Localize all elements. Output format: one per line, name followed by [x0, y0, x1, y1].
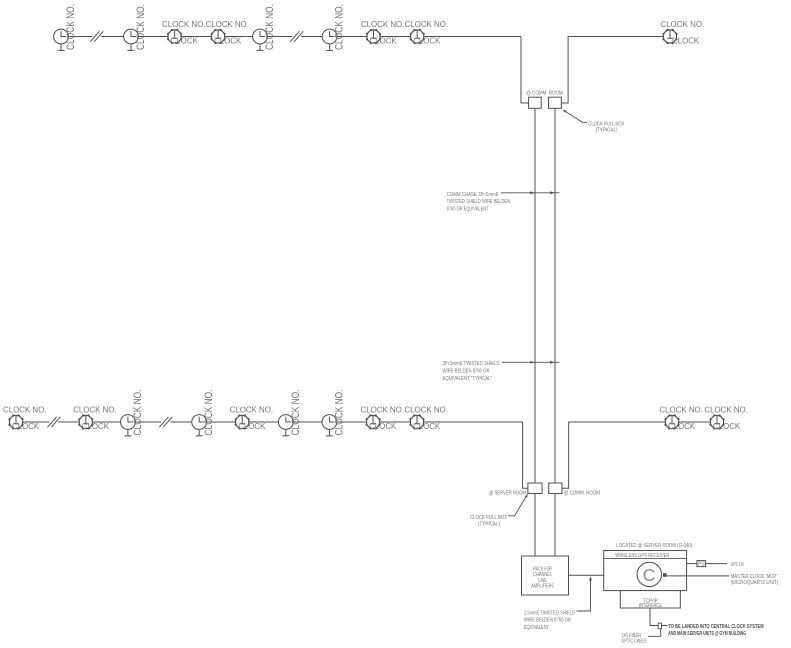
wire: master clock MCP lead [667, 575, 730, 577]
label: CLOCK NO. / CLOCK for top right end clock [660, 19, 704, 45]
svg-text:CLOCK NO.: CLOCK NO. [659, 405, 703, 415]
svg-text:WIRE BELDEN 8760 OR: WIRE BELDEN 8760 OR [443, 369, 490, 375]
svg-text:(MICROQUARTZ UNIT): (MICROQUARTZ UNIT) [731, 580, 779, 586]
svg-text:CLOCK NO.: CLOCK NO. [162, 19, 206, 29]
wire break (top row right) [290, 31, 303, 41]
svg-text:CLOCK NO.: CLOCK NO. [361, 19, 405, 29]
master clock C symbol [637, 562, 661, 586]
svg-text:CLOCK NO.: CLOCK NO. [333, 390, 345, 436]
bottom right clock 2 (surface clock) [710, 415, 724, 429]
wire: bottom row segment 2 [59, 421, 162, 423]
arrowhead to server room pull box [525, 493, 529, 498]
power supply PS box [697, 561, 706, 567]
svg-text:CLOCK NO.: CLOCK NO. [65, 4, 77, 50]
svg-text:COMM CHASE 3Pr.5mmE: COMM CHASE 3Pr.5mmE [447, 192, 499, 198]
svg-text:WIRELESS GPS RECEIVER: WIRELESS GPS RECEIVER [615, 553, 669, 559]
wire: comm room pull box riser to top right clock [561, 37, 670, 104]
label: CLOCK NO. / CLOCK for bottom surface clock 4 [361, 405, 405, 431]
svg-text:TWISTED SHIELD WIRE BELDEN: TWISTED SHIELD WIRE BELDEN [447, 199, 511, 205]
top row surface clock 4 (surface clock) [410, 29, 424, 43]
clock pull box (comm room top, right) [549, 97, 562, 108]
clock pull box (server room) [528, 483, 542, 494]
top row surface clock 2 (surface clock) [211, 29, 225, 43]
label: CLOCK NO. / CLOCK for bottom surface clock 3 [230, 405, 274, 431]
label: CLOCK NO. / CLOCK for bottom surface clock 2 [73, 405, 117, 431]
arrowhead to comm room pull box [562, 109, 567, 113]
svg-text:CLOCK NO.: CLOCK NO. [230, 405, 274, 415]
svg-text:@ COMM. ROOM: @ COMM. ROOM [564, 490, 600, 496]
svg-text:TO BE LANDED INTO CENTRAL CLOC: TO BE LANDED INTO CENTRAL CLOCK SYSTEM [668, 624, 764, 630]
svg-text:CLOCK NO.: CLOCK NO. [404, 405, 448, 415]
wire: comm room pull box to bottom right clocks [562, 422, 717, 488]
top row pedestal clock 3 (wall clock on pedestal) [253, 29, 268, 50]
top row pedestal clock 4 (wall clock on pedestal) [322, 29, 337, 50]
top row surface clock 3 (surface clock) [366, 29, 380, 43]
tcp/ip interface box [620, 591, 680, 608]
svg-text:CLOCK: CLOCK [668, 421, 695, 431]
label: CLOCK NO. / CLOCK for bottom surface clock 5 [404, 405, 448, 431]
svg-text:CLOCK: CLOCK [171, 36, 198, 46]
svg-text:CLOCK NO.: CLOCK NO. [660, 19, 704, 29]
svg-text:2.5mmE TWISTED SHIELD: 2.5mmE TWISTED SHIELD [524, 611, 575, 617]
clock pull box (comm room top, left) [529, 97, 542, 108]
svg-text:CLOCK: CLOCK [214, 36, 241, 46]
svg-text:CLOCK NO.: CLOCK NO. [290, 390, 302, 436]
clock pull box (comm room bottom) [549, 483, 562, 494]
svg-text:8760 OR EQUIVALENT: 8760 OR EQUIVALENT [447, 207, 489, 213]
top right end clock (surface clock) [663, 29, 677, 43]
bottom row surface clock 4 (surface clock) [366, 415, 380, 429]
leader: fiber optic cable [648, 629, 661, 637]
svg-text:CLOCK NO.: CLOCK NO. [206, 19, 250, 29]
svg-text:EQUIVALENT: EQUIVALENT [524, 625, 549, 631]
label: CLOCK NO. / CLOCK for bottom surface clock 1 [3, 405, 47, 431]
svg-text:CLOCK NO.: CLOCK NO. [264, 4, 276, 50]
svg-text:C: C [643, 565, 656, 585]
wire break (bottom row left) [48, 417, 61, 427]
divider: gps receiver header [604, 557, 687, 559]
svg-text:OPTIC CABLE: OPTIC CABLE [621, 638, 647, 644]
wire: left riser 3Pr twisted shield [534, 108, 536, 556]
bottom row surface clock 3 (surface clock) [235, 415, 249, 429]
svg-text:CLOCK: CLOCK [82, 421, 109, 431]
leader: riser cable note 1 [501, 192, 560, 194]
svg-text:(TYPICAL): (TYPICAL) [596, 128, 618, 134]
svg-text:CLOCK: CLOCK [713, 421, 740, 431]
top row pedestal clock 1 (wall clock on pedestal) [54, 29, 69, 50]
bottom row pedestal clock 4 (wall clock on pedestal) [322, 415, 337, 436]
arrowhead 2.5mm note to wire [589, 576, 592, 580]
arrowhead note1 right riser [550, 191, 554, 194]
wire: rack to wireless gps receiver [569, 574, 604, 576]
wire: bottom row drop to server room pull box [523, 422, 528, 488]
svg-text:CLOCK: CLOCK [413, 36, 440, 46]
svg-text:EQUIVALENT “TYPICAL”: EQUIVALENT “TYPICAL” [443, 376, 493, 382]
text: tcp/ip interface label [639, 598, 662, 609]
svg-text:LOCATED @ SERVER ROOM (G-040): LOCATED @ SERVER ROOM (G-040) [616, 543, 692, 549]
bottom right clock 1 (surface clock) [665, 415, 679, 429]
svg-text:@ SERVER ROOM: @ SERVER ROOM [489, 490, 526, 496]
svg-text:CLOCK PULL BOX: CLOCK PULL BOX [588, 121, 624, 127]
svg-text:(TYPICAL): (TYPICAL) [478, 521, 500, 527]
bottom row surface clock 2 (surface clock) [79, 415, 93, 429]
wire: top row drop to comm room pull box [521, 37, 529, 104]
svg-text:CLOCK NO.: CLOCK NO. [132, 390, 144, 436]
svg-text:CLOCK NO.: CLOCK NO. [405, 19, 449, 29]
bottom row surface clock 1 (surface clock) [9, 415, 23, 429]
label: CLOCK NO. / CLOCK for top surface clock 4 [405, 19, 449, 45]
rack for channel line amplifiers [522, 556, 569, 595]
wire: bottom row segment 1 [16, 421, 50, 423]
svg-text:@ COMM. ROOM: @ COMM. ROOM [526, 90, 563, 96]
svg-text:CLOCK: CLOCK [672, 36, 699, 46]
label: CLOCK NO. / CLOCK for bottom right clock 1 [659, 405, 703, 431]
wire: top row segment 3 [301, 36, 521, 38]
arrowhead note2 right riser [550, 361, 554, 364]
wire: fiber optic drop [650, 608, 668, 626]
svg-text:CLOCK NO.: CLOCK NO. [135, 4, 147, 50]
wire break (top row left) [90, 31, 103, 41]
leader: clock pull box top [564, 111, 587, 123]
wireless gps receiver box [604, 551, 687, 591]
svg-text:AND MAIN SERVER UNITS @ GYM B: AND MAIN SERVER UNITS @ GYM BUILDING [668, 631, 746, 637]
svg-text:CLOCK: CLOCK [238, 421, 265, 431]
arrowhead note1 left riser [530, 191, 534, 194]
wire: right riser 3Pr twisted shield [554, 108, 556, 556]
fiber junction box [658, 623, 661, 629]
wire: bottom row segment 3 [170, 421, 522, 423]
wire: top row segment 2 [101, 36, 292, 38]
top row surface clock 1 (surface clock) [167, 29, 181, 43]
arrowhead note2 left riser [530, 361, 534, 364]
svg-text:CLOCK NO.: CLOCK NO. [3, 405, 47, 415]
leader: riser cable note 2 [502, 361, 560, 363]
svg-text:CLOCK PULL BOX: CLOCK PULL BOX [470, 515, 507, 521]
svg-text:CLOCK NO.: CLOCK NO. [73, 405, 117, 415]
text: rack for channel line amplifiers label [531, 567, 554, 590]
label: CLOCK NO. / CLOCK for top surface clock 2 [206, 19, 250, 45]
wire: top row segment 1 [61, 36, 92, 38]
bottom row pedestal clock 1 (wall clock on pedestal) [121, 415, 136, 436]
svg-text:3Pr.5mmE TWISTED SHIELD: 3Pr.5mmE TWISTED SHIELD [443, 361, 500, 367]
wire: gps receiver to PS [687, 563, 697, 565]
bottom row pedestal clock 2 (wall clock on pedestal) [192, 415, 207, 436]
svg-text:CLOCK: CLOCK [413, 421, 440, 431]
svg-text:PS: PS [698, 562, 705, 568]
svg-text:CLOCK: CLOCK [369, 421, 396, 431]
svg-text:CLOCK NO.: CLOCK NO. [203, 390, 215, 436]
leader: clock pull box bottom [508, 496, 527, 516]
label: CLOCK NO. / CLOCK for bottom right clock 2 [704, 405, 748, 431]
leader: 2.5mm cable note [577, 579, 591, 612]
svg-text:CLOCK NO.: CLOCK NO. [704, 405, 748, 415]
wire break (bottom row mid) [159, 417, 172, 427]
wire: PS to UPS 1-B [706, 563, 727, 565]
svg-text:CLOCK NO.: CLOCK NO. [361, 405, 405, 415]
bottom row surface clock 5 (surface clock) [410, 415, 424, 429]
top row pedestal clock 2 (wall clock on pedestal) [124, 29, 139, 50]
svg-text:CLOCK NO.: CLOCK NO. [334, 4, 346, 50]
label: CLOCK NO. / CLOCK for top surface clock 3 [361, 19, 405, 45]
bottom row pedestal clock 3 (wall clock on pedestal) [278, 415, 293, 436]
svg-text:AMPLIFIERS: AMPLIFIERS [531, 584, 554, 590]
node: master clock output terminal [663, 573, 667, 577]
label: CLOCK NO. / CLOCK for top surface clock 1 [162, 19, 206, 45]
svg-text:UPS 1-B: UPS 1-B [731, 562, 744, 568]
svg-text:CLOCK: CLOCK [12, 421, 39, 431]
svg-text:CLOCK: CLOCK [370, 36, 397, 46]
svg-text:WIRE BELDEN 8760 OR: WIRE BELDEN 8760 OR [524, 618, 571, 624]
